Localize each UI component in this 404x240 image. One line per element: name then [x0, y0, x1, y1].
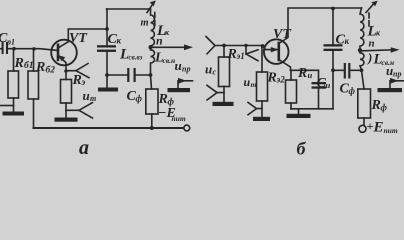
inductor Lk (a) [151, 9, 155, 47]
inductor Lk (b) [360, 8, 364, 48]
tuning dashes (a) [154, 13, 156, 26]
svg-text:u: u [175, 58, 182, 73]
caption a [79, 137, 89, 159]
label VT (a) [69, 31, 88, 46]
svg-text:): ) [367, 50, 372, 65]
node base wire 1 [12, 47, 16, 51]
bottom supply rail (a) [34, 127, 184, 129]
resistor Re [65, 71, 67, 80]
ground under base network [287, 114, 311, 118]
svg-text:ф: ф [381, 103, 388, 113]
svg-text:R: R [227, 47, 237, 62]
svg-text:и: и [326, 80, 331, 90]
label Lsv.n (b) [367, 50, 394, 68]
base node wire (b) [291, 70, 319, 82]
transistor VT (a) emitter with arrow [58, 56, 66, 72]
noise ut top fork (b) [246, 46, 258, 61]
node tank bottom left [105, 73, 109, 77]
svg-text:R: R [158, 92, 168, 107]
ground under Re [55, 118, 78, 122]
capacitor Ck (b) plates [324, 44, 343, 51]
label uc [205, 62, 217, 77]
terminal +Epit [359, 125, 366, 132]
capacitor Ck (a) plates [97, 45, 116, 52]
tuning dashes (b) [368, 13, 370, 26]
svg-text:б2: б2 [46, 65, 56, 76]
label upr (b) [386, 63, 401, 79]
tuning arrow (a) [147, 4, 153, 12]
svg-text:пит: пит [384, 126, 398, 135]
svg-text:R: R [35, 60, 45, 75]
svg-text:R: R [297, 66, 307, 81]
resistor Rb1 [13, 49, 15, 71]
transistor VT (a) circle [51, 40, 77, 66]
transistor VT (b) collector [279, 8, 362, 44]
capacitor Ci plates [312, 82, 327, 89]
node coil bottom (b) [360, 68, 364, 72]
svg-text:св.вз: св.вз [129, 54, 143, 62]
svg-text:к: к [117, 36, 122, 46]
resistor Re2 [261, 46, 263, 72]
label Lsv.n (a) [154, 51, 175, 66]
output arrow bottom (b) [396, 80, 404, 82]
transistor VT (b) emitter arrow [271, 47, 279, 52]
ground under Ck (a) [98, 88, 118, 92]
transistor VT (b) base bar [277, 43, 280, 60]
node collector rail [105, 27, 109, 31]
svg-text:с: с [213, 68, 217, 77]
ground stub (b) [298, 109, 300, 114]
label Ck (a) [108, 32, 122, 47]
node Re1 top [222, 44, 226, 48]
label ut (b) [244, 75, 257, 89]
svg-text:VT: VT [69, 31, 88, 46]
ground under Re1 [213, 102, 234, 106]
label Cf (b) [340, 82, 356, 97]
label ut (a) [83, 88, 97, 103]
resistor Re1 [223, 46, 225, 58]
source uc top fork [206, 37, 215, 54]
svg-text:б1: б1 [24, 60, 34, 71]
svg-text:пр: пр [182, 65, 190, 74]
transistor VT (b) base lead [279, 60, 291, 71]
source uc bottom fork [207, 85, 224, 100]
svg-text:u: u [83, 88, 90, 103]
ground under Rb1 [3, 112, 25, 116]
node Rf bottom rail [150, 126, 154, 130]
caption b [297, 139, 307, 159]
node base wire 2 [32, 47, 36, 51]
svg-text:R: R [72, 73, 82, 88]
capacitor Cf (b) leads [333, 69, 362, 71]
label Re [72, 73, 86, 88]
capacitor Cf (a) leads [107, 74, 151, 76]
output ground symbol (b) [389, 81, 391, 89]
label Ck (b) [336, 33, 350, 48]
label Lk (a) [156, 23, 170, 39]
tuning arrow (b) [366, 5, 373, 13]
label Ci [317, 76, 331, 91]
inductor Lsv.n coil (b) [360, 53, 364, 71]
capacitor Ck (b) leads [332, 8, 334, 109]
output arrow from tap n (a) [152, 46, 186, 48]
svg-text:E: E [373, 120, 384, 136]
inductor Lsv.n coil (a) [151, 50, 155, 75]
label n (a) [156, 34, 163, 48]
transistor VT (a) base bar [57, 45, 60, 60]
label upr (a) [175, 58, 191, 74]
svg-text:u: u [244, 75, 251, 89]
emitter node (a) [64, 69, 68, 73]
svg-text:пр: пр [393, 70, 401, 79]
capacitor Cf (a) plates [127, 68, 136, 82]
svg-text:и: и [308, 70, 313, 80]
svg-text:э2: э2 [276, 75, 286, 85]
output arrow from tap n (b) [362, 49, 391, 52]
resistor Rf (b) [358, 89, 371, 118]
node top rail Ck (b) [331, 7, 335, 11]
svg-text:ф: ф [136, 94, 143, 104]
svg-text:а: а [79, 137, 89, 159]
capacitor C_p1 plates [2, 42, 8, 54]
svg-text:т: т [251, 80, 257, 89]
node Re2 top [261, 44, 265, 48]
noise source ut top fork (a) [66, 64, 89, 78]
label Lk (b) [367, 24, 382, 40]
ground under Re2 [253, 117, 270, 121]
wire input to base [0, 49, 58, 51]
svg-text:т: т [90, 94, 96, 103]
transistor VT (b) circle [264, 39, 289, 64]
output arrow bottom (a) [184, 80, 193, 82]
svg-text:R: R [371, 98, 381, 113]
resistor Ri [290, 70, 292, 80]
svg-text:R: R [14, 56, 24, 71]
svg-text:VT: VT [273, 27, 292, 42]
label Cf (a) [127, 89, 143, 104]
svg-text:б: б [297, 139, 307, 159]
label VT (b) [273, 27, 292, 42]
svg-text:э1: э1 [236, 51, 245, 61]
resistor Rb2 [33, 49, 35, 71]
label n (b) [369, 37, 375, 49]
bottom join wire (b) [291, 108, 333, 110]
label -Epit [158, 106, 186, 123]
output ground symbol (a) [177, 81, 179, 89]
node coil bottom (a) [149, 73, 153, 77]
node tank bottom (b) [331, 68, 335, 72]
transistor VT (a) collector [58, 29, 107, 48]
label Lsv.vz [119, 47, 143, 63]
svg-text:ф: ф [168, 97, 175, 107]
label +Epit [367, 119, 398, 136]
node tap n (a) [149, 45, 153, 49]
tank top rail (a) [107, 8, 151, 10]
svg-text:n: n [369, 37, 375, 49]
wire coil to Rf (b) [362, 70, 365, 89]
noise source ut bottom fork (a) [66, 103, 93, 118]
svg-text:ф: ф [349, 86, 356, 96]
svg-text:св.н: св.н [163, 56, 176, 65]
label m [141, 18, 149, 29]
svg-text:э: э [81, 77, 86, 87]
svg-text:m: m [141, 18, 149, 29]
noise ut bottom fork (b) [248, 102, 262, 114]
svg-text:пит: пит [172, 114, 186, 123]
capacitor C_p1 label [0, 31, 15, 47]
terminal -Epit [184, 125, 190, 131]
capacitor Ck (a) leads [106, 9, 108, 45]
node tap n (b) [358, 48, 362, 52]
wire coil to Rf (a) [151, 75, 152, 89]
resistor Rf (a) [146, 89, 158, 114]
svg-text:+: + [367, 119, 374, 133]
capacitor Cf (b) plates [344, 63, 351, 79]
svg-text:к: к [345, 36, 350, 46]
svg-text:u: u [205, 62, 212, 77]
svg-text:R: R [267, 71, 277, 86]
wire left return [0, 105, 14, 107]
input wire (b) [215, 46, 279, 50]
